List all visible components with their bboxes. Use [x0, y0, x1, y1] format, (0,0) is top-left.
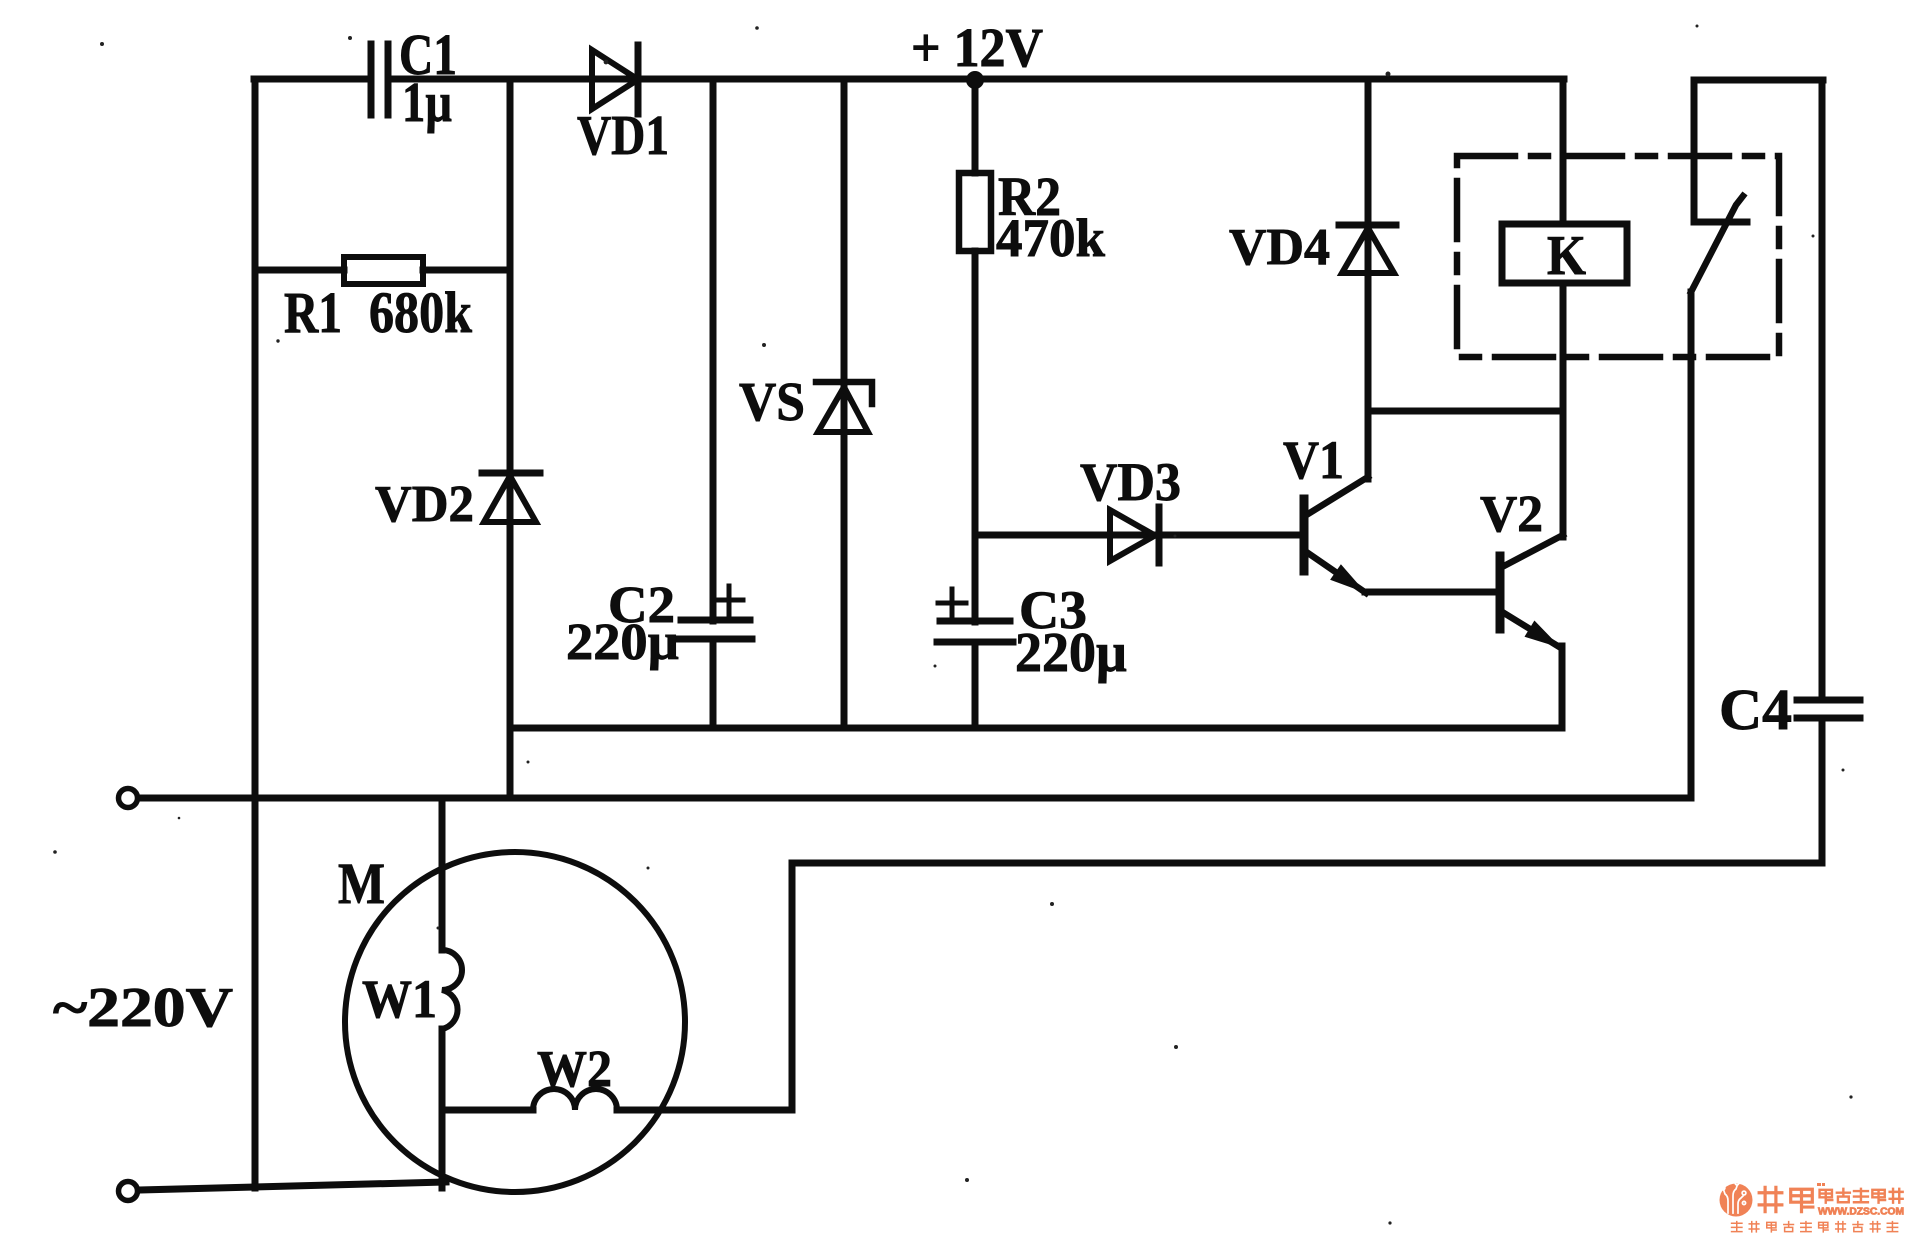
svg-text:K: K	[1547, 225, 1586, 287]
svg-text:W1: W1	[362, 969, 437, 1029]
svg-text:VD2: VD2	[375, 476, 474, 533]
svg-text:VS: VS	[739, 371, 805, 432]
svg-text:470k: 470k	[996, 208, 1105, 268]
svg-text:~220V: ~220V	[53, 977, 233, 1039]
svg-text:V2: V2	[1480, 486, 1543, 543]
svg-text:+ 12V: + 12V	[911, 17, 1043, 78]
svg-text:W2: W2	[537, 1041, 612, 1098]
svg-text:V1: V1	[1283, 430, 1344, 490]
svg-text:VD3: VD3	[1080, 452, 1181, 512]
svg-text:1µ: 1µ	[402, 72, 452, 134]
svg-text:WWW.DZSC.COM: WWW.DZSC.COM	[1818, 1207, 1904, 1218]
svg-text:M: M	[338, 851, 385, 916]
svg-text:680k: 680k	[369, 280, 473, 345]
svg-text:220µ: 220µ	[566, 614, 679, 671]
svg-text:C4: C4	[1719, 677, 1792, 742]
svg-text:220µ: 220µ	[1015, 622, 1127, 684]
svg-text:R1: R1	[284, 280, 342, 345]
svg-text:VD1: VD1	[577, 105, 669, 167]
svg-text:VD4: VD4	[1229, 219, 1330, 276]
